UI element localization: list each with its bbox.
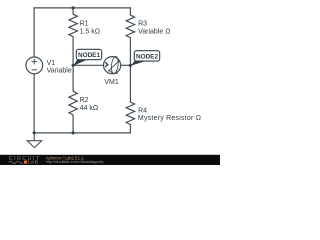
wire top rail [34,7,130,9]
svg-text:R2: R2 [80,97,89,104]
svg-text:NODE2: NODE2 [136,53,158,60]
resistor R3 [126,8,134,65]
footer logo orange mark [24,161,27,164]
resistor R2 [69,65,77,133]
svg-text:Variable Ω: Variable Ω [138,28,170,35]
node flag NODE1 [73,49,101,65]
svg-text:V1: V1 [47,60,56,67]
junction ground [33,131,36,134]
wire V1 top [33,8,35,57]
wire NODE1 to voltmeter [73,64,104,66]
svg-text:http://circuitlab.com/c/3eah4a: http://circuitlab.com/c/3eah4aqyvcty [46,160,104,164]
voltage source V1 [26,57,43,74]
footer bar [0,155,220,165]
resistor R4 [126,65,134,133]
svg-text:NODE1: NODE1 [78,52,100,59]
svg-text:VM1: VM1 [104,79,119,86]
svg-text:Mystery Resistor Ω: Mystery Resistor Ω [138,115,201,122]
footer logo wave [9,161,23,163]
svg-text:LAB: LAB [28,160,39,165]
wire bottom rail [34,132,130,134]
wire voltmeter to NODE2 [121,64,131,66]
svg-text:1.5 kΩ: 1.5 kΩ [80,28,100,35]
wire V1 bottom [33,74,35,133]
svg-text:Variable: Variable [47,67,72,74]
ground [27,133,42,148]
junction R1 top [72,6,75,9]
svg-text:R1: R1 [80,21,89,28]
svg-text:R3: R3 [138,21,147,28]
junction R2 bottom [72,131,75,134]
node flag NODE2 [131,51,160,66]
svg-text:R4: R4 [138,107,147,114]
junction NODE1 [72,64,75,67]
voltmeter VM1 [104,56,121,74]
junction NODE2 [129,64,132,67]
resistor R1 [69,8,77,65]
svg-text:44 kΩ: 44 kΩ [80,105,98,112]
